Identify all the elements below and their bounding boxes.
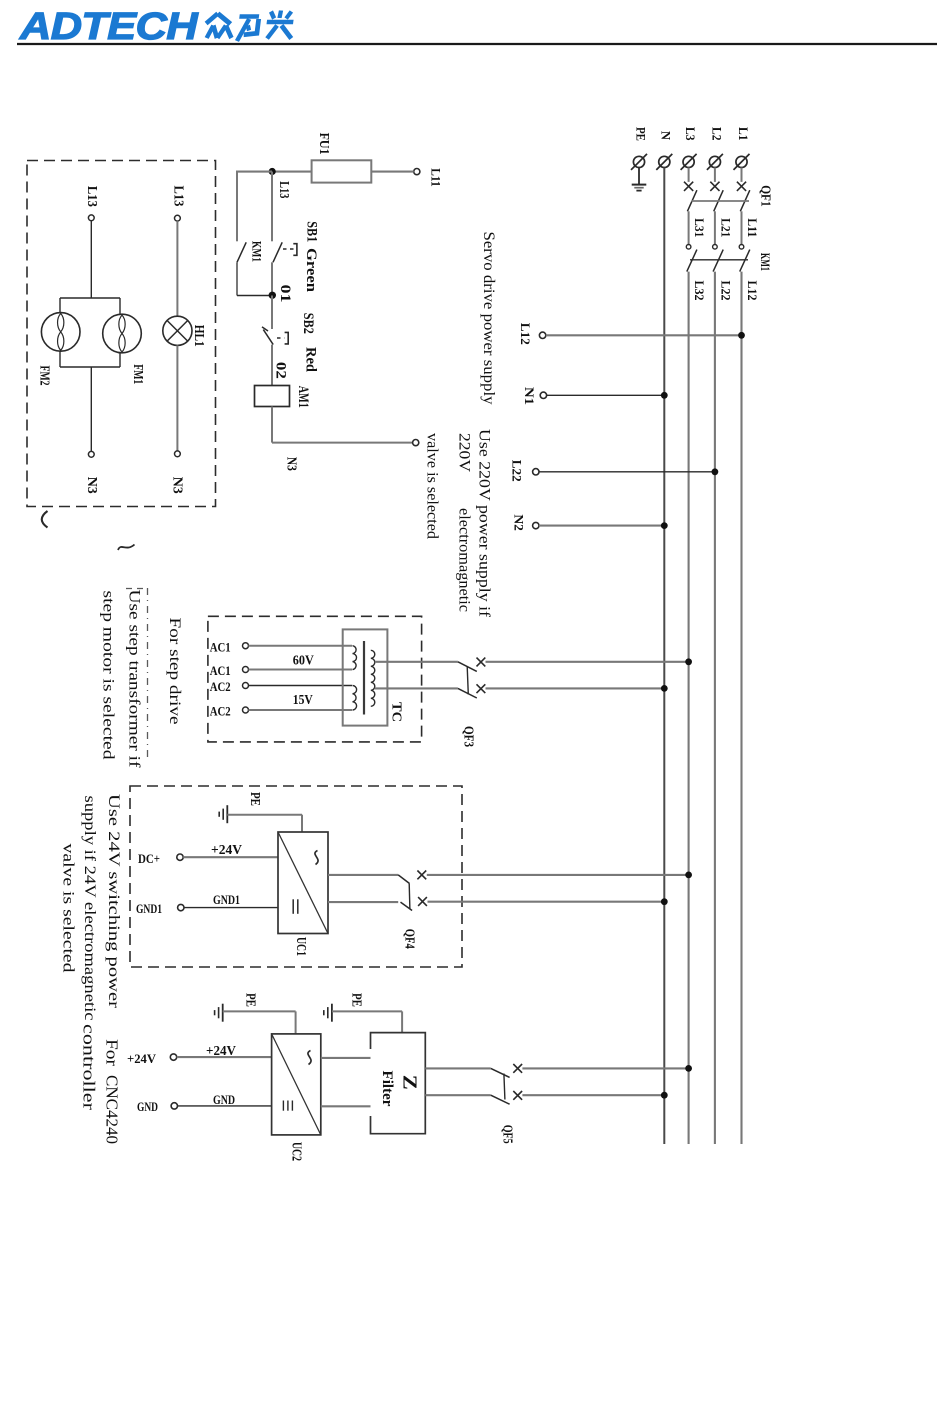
svg-text:Use step transformer if: Use step transformer if [126, 590, 143, 769]
svg-text:+24V: +24V [206, 1043, 236, 1058]
svg-text:Servo drive power supply: Servo drive power supply [480, 232, 497, 405]
svg-text:N1: N1 [522, 387, 537, 405]
wire [375, 661, 458, 663]
breaker QF1 linkage [692, 200, 750, 202]
terminal L22 [533, 469, 539, 475]
crease dashed line [147, 588, 149, 758]
svg-text:GND: GND [137, 1099, 158, 1114]
breaker QF1 pole L2 blade [714, 190, 724, 211]
terminal N2 [533, 522, 539, 528]
svg-text:FM1: FM1 [130, 364, 145, 384]
svg-text:L1: L1 [736, 127, 750, 141]
breaker QF1 pole L3 contact [684, 182, 693, 191]
svg-text:L32: L32 [692, 281, 706, 301]
wire L32 bus [688, 272, 690, 1144]
svg-text:DC+: DC+ [138, 851, 160, 866]
wire [486, 661, 689, 663]
svg-text:L2: L2 [709, 127, 723, 141]
wire [321, 1105, 371, 1107]
terminal L11 [414, 169, 420, 175]
breaker QF4 blade B [401, 902, 413, 910]
junction [738, 332, 745, 339]
wire [176, 345, 178, 451]
wire [271, 407, 273, 443]
pushbutton SB1 actuator [283, 248, 294, 250]
svg-text:L31: L31 [692, 218, 706, 237]
svg-text:L13: L13 [277, 181, 292, 198]
wire fan bracket top [60, 297, 120, 299]
wire [271, 296, 273, 330]
wire [236, 171, 238, 242]
wire [328, 901, 398, 903]
svg-text:+24V: +24V [211, 842, 242, 857]
breaker QF5 contact B [513, 1091, 522, 1100]
ground PE (filter) [331, 1004, 333, 1022]
wire [237, 295, 272, 297]
wire [184, 907, 278, 909]
wire [59, 351, 61, 367]
fan motor FM1 [103, 314, 142, 353]
wire [119, 298, 121, 314]
wire [178, 1105, 272, 1107]
enclosure dashed box (fan/lamp unit) [27, 161, 216, 507]
wire [90, 367, 92, 452]
breaker QF4 linkage [408, 884, 411, 910]
terminal AC1 [243, 643, 249, 649]
wire [328, 874, 398, 876]
svg-text:GND1: GND1 [213, 893, 240, 907]
contactor KM1 linkage [690, 259, 748, 261]
wire [119, 353, 121, 367]
wire [90, 221, 92, 298]
terminal L12 [539, 332, 545, 338]
breaker QF1 pole L1 blade [740, 190, 750, 211]
wire [522, 1067, 688, 1069]
wire [249, 709, 353, 711]
svg-text:N: N [659, 131, 673, 140]
svg-text:GND: GND [213, 1093, 235, 1107]
svg-text:15V: 15V [293, 692, 313, 707]
svg-text:ADTECH: ADTECH [19, 4, 199, 47]
breaker QF3 contact A [477, 658, 486, 667]
wire [295, 1011, 297, 1034]
svg-text:QF3: QF3 [462, 726, 477, 747]
breaker QF5 linkage [504, 1074, 505, 1100]
fuse FU1 [312, 160, 372, 182]
stray squiggle mark [118, 545, 135, 551]
junction [685, 1065, 692, 1072]
svg-text:N2: N2 [511, 514, 526, 531]
enclosure dashed box (24V switching supply) [130, 786, 462, 967]
terminal DC+ [177, 854, 183, 860]
contactor KM1 pole L2 terminal [713, 245, 718, 250]
wire L1 stub [741, 168, 743, 182]
wire [223, 1010, 296, 1012]
svg-text:electromagnetic: electromagnetic [456, 508, 473, 612]
transformer TC core [363, 641, 365, 715]
wire fan bracket bottom [60, 366, 120, 368]
breaker QF4 contact A [417, 871, 426, 880]
pushbutton SB2 actuator [277, 337, 284, 339]
power supply UC2 DC mark [282, 1101, 284, 1111]
svg-text:TC: TC [390, 702, 405, 722]
wire [688, 211, 690, 244]
wire L22 bus [714, 272, 716, 1144]
enclosure dashed box (step transformer) [208, 616, 422, 742]
svg-text:UC1: UC1 [294, 937, 309, 956]
supply terminal PE [633, 156, 644, 167]
crease dashed line top [126, 588, 148, 590]
power supply UC2 AC mark [308, 1051, 311, 1065]
fan motor FM2 [41, 313, 80, 352]
svg-text:L22: L22 [510, 460, 525, 482]
svg-text:QF5: QF5 [501, 1125, 516, 1144]
power supply UC1 diagonal [278, 832, 328, 934]
wire [176, 221, 178, 316]
svg-text:AC1: AC1 [210, 663, 231, 678]
terminal N3 lamp [175, 451, 181, 457]
svg-text:PE: PE [633, 127, 647, 141]
wire [332, 1010, 402, 1012]
wire [539, 525, 664, 527]
junction [661, 522, 668, 529]
svg-text:valve is selected: valve is selected [60, 844, 77, 973]
terminal GND1 [178, 904, 184, 910]
svg-text:L11: L11 [429, 168, 444, 187]
wire [401, 1011, 403, 1032]
contactor KM1 pole L2 blade [713, 250, 723, 272]
wire [427, 874, 689, 876]
svg-text:L11: L11 [745, 218, 759, 237]
svg-text:L12: L12 [518, 323, 533, 345]
wire N bus [663, 168, 665, 1145]
svg-text:GND1: GND1 [136, 901, 162, 916]
svg-text:L22: L22 [718, 281, 732, 301]
wire [714, 211, 716, 244]
svg-text:02: 02 [273, 362, 289, 379]
wire [272, 171, 312, 173]
wire [237, 171, 272, 173]
svg-text:AC1: AC1 [210, 639, 231, 654]
svg-text:+24V: +24V [127, 1051, 157, 1066]
junction 01 [269, 292, 276, 299]
terminal L13 fan [88, 215, 94, 221]
wire PE stub [638, 168, 640, 185]
breaker QF1 pole L2 contact [710, 182, 719, 191]
terminal AC2 [243, 707, 249, 713]
ground PE [632, 184, 647, 186]
wire [428, 901, 665, 903]
svg-text:FU1: FU1 [317, 133, 332, 155]
svg-text:Green: Green [303, 248, 319, 292]
svg-text:QF1: QF1 [758, 185, 773, 207]
junction [685, 658, 692, 665]
svg-text:For: For [103, 1039, 122, 1066]
junction [712, 468, 719, 475]
terminal AC1 [243, 667, 249, 673]
svg-text:PE: PE [248, 792, 263, 806]
svg-text:AC2: AC2 [210, 679, 231, 694]
wire [741, 211, 743, 244]
wire [271, 345, 273, 386]
svg-text:Z: Z [399, 1075, 421, 1090]
junction [661, 685, 668, 692]
svg-text:Use 24V switching power: Use 24V switching power [105, 794, 122, 1009]
wire [371, 171, 413, 173]
pushbutton SB1 blade [273, 242, 282, 262]
svg-text:step motor is selected: step motor is selected [100, 591, 117, 760]
transformer TC secondary winding [371, 650, 375, 706]
svg-text:Filter: Filter [379, 1071, 395, 1108]
svg-text:PE: PE [244, 993, 259, 1007]
svg-text:N3: N3 [284, 457, 299, 471]
relay coil AM1 [255, 386, 290, 407]
transformer TC primary winding 60V [353, 646, 357, 670]
terminal N3 fan [88, 451, 94, 457]
wire [236, 262, 238, 295]
svg-text:For step drive: For step drive [166, 618, 183, 725]
wire [546, 334, 742, 336]
supply terminal N [659, 156, 670, 167]
breaker QF4 blade A [398, 875, 409, 884]
breaker QF5 blade B [491, 1095, 510, 1104]
svg-text:valve is selected: valve is selected [424, 433, 441, 539]
terminal N1 [540, 392, 546, 398]
wire [539, 471, 715, 473]
junction [661, 898, 668, 905]
svg-text:UC2: UC2 [290, 1142, 305, 1161]
wire [177, 1056, 272, 1058]
terminal +24V [170, 1054, 176, 1060]
breaker QF3 contact B [477, 684, 486, 693]
svg-text:AM1: AM1 [295, 386, 311, 408]
svg-text:N3: N3 [170, 477, 185, 494]
pushbutton SB2 seat tick [262, 327, 268, 331]
ground PE (UC1) [226, 805, 228, 823]
svg-text:HL1: HL1 [192, 325, 207, 347]
wire [59, 298, 61, 313]
svg-text:controller: controller [80, 1024, 99, 1110]
svg-text:AC2: AC2 [210, 704, 231, 719]
wire [227, 814, 302, 816]
junction [685, 872, 692, 879]
svg-text:supply if 24V electromagnetic: supply if 24V electromagnetic [81, 796, 98, 1021]
contactor KM1 aux contact blade [237, 242, 246, 262]
power supply UC1 DC mark [292, 899, 294, 914]
svg-text:KM1: KM1 [250, 241, 265, 262]
breaker QF3 blade A [458, 662, 477, 672]
terminal GND [171, 1103, 177, 1109]
wire [301, 815, 303, 832]
svg-text:CNC4240: CNC4240 [103, 1075, 122, 1144]
wire [522, 1094, 664, 1096]
supply terminal L2 [709, 156, 720, 167]
ground PE (UC2) [222, 1004, 224, 1022]
contactor KM1 pole L3 terminal [686, 245, 691, 250]
wire [249, 685, 353, 687]
junction L13 [269, 168, 276, 175]
svg-text:L3: L3 [683, 127, 697, 141]
power supply UC1 body [278, 832, 328, 934]
terminal AC2 [243, 683, 249, 689]
wire [183, 856, 278, 858]
wire [425, 1094, 491, 1096]
wire [271, 262, 273, 295]
pushbutton SB2 blade [263, 330, 273, 345]
svg-text:L13: L13 [85, 186, 100, 207]
svg-text:01: 01 [277, 285, 293, 303]
svg-text:QF4: QF4 [403, 929, 418, 949]
svg-text:SB2: SB2 [300, 313, 316, 334]
svg-text:L21: L21 [718, 218, 732, 237]
wire L2 stub [714, 168, 716, 182]
wire [249, 669, 353, 671]
svg-text:60V: 60V [293, 653, 314, 668]
wire [321, 1057, 371, 1059]
svg-text:SB1: SB1 [304, 221, 320, 242]
terminal L13 lamp [175, 215, 181, 221]
wire SB1 branch [271, 172, 273, 242]
stray arc mark [42, 511, 48, 528]
power supply UC2 body [272, 1034, 321, 1135]
header rule [17, 43, 937, 45]
wire L3 stub [688, 168, 690, 182]
power supply UC1 AC mark [315, 851, 318, 865]
svg-text:L13: L13 [171, 186, 186, 207]
wire [425, 1067, 491, 1069]
junction [661, 392, 668, 399]
svg-text:KM1: KM1 [758, 253, 773, 271]
contactor KM1 pole L1 terminal [739, 245, 744, 250]
lamp HL1 [163, 316, 192, 345]
terminal N3 out [413, 440, 419, 446]
svg-text:N3: N3 [85, 477, 100, 494]
supply terminal L1 [736, 156, 747, 167]
svg-text:L12: L12 [745, 281, 759, 301]
ADTECH logo [19, 4, 295, 47]
svg-text:FM2: FM2 [37, 366, 52, 386]
svg-text:Use 220V power supply if: Use 220V power supply if [476, 429, 493, 618]
transformer TC body [343, 629, 388, 725]
wire [547, 394, 665, 396]
transformer TC primary winding 15V [353, 686, 357, 711]
power supply UC2 diagonal [272, 1034, 321, 1135]
wire [486, 687, 665, 689]
contactor KM1 pole L1 blade [740, 250, 750, 272]
supply terminal L3 [683, 156, 694, 167]
breaker QF3 linkage [467, 667, 468, 695]
breaker QF3 blade B [458, 688, 477, 698]
breaker QF5 blade A [491, 1068, 510, 1077]
svg-text:PE: PE [350, 993, 365, 1007]
breaker QF1 pole L1 contact [737, 182, 746, 191]
wire [272, 442, 413, 444]
wire [249, 645, 353, 647]
junction [661, 1092, 668, 1099]
svg-text:Red: Red [303, 347, 319, 372]
filter Z body [371, 1033, 426, 1134]
breaker QF1 pole L3 blade [687, 190, 697, 211]
breaker QF5 contact A [513, 1064, 522, 1073]
wire L12 bus [740, 272, 742, 1144]
contactor KM1 pole L3 blade [687, 250, 697, 272]
svg-text:220V: 220V [456, 433, 473, 472]
breaker QF4 contact B [418, 897, 427, 906]
wire [375, 687, 458, 689]
